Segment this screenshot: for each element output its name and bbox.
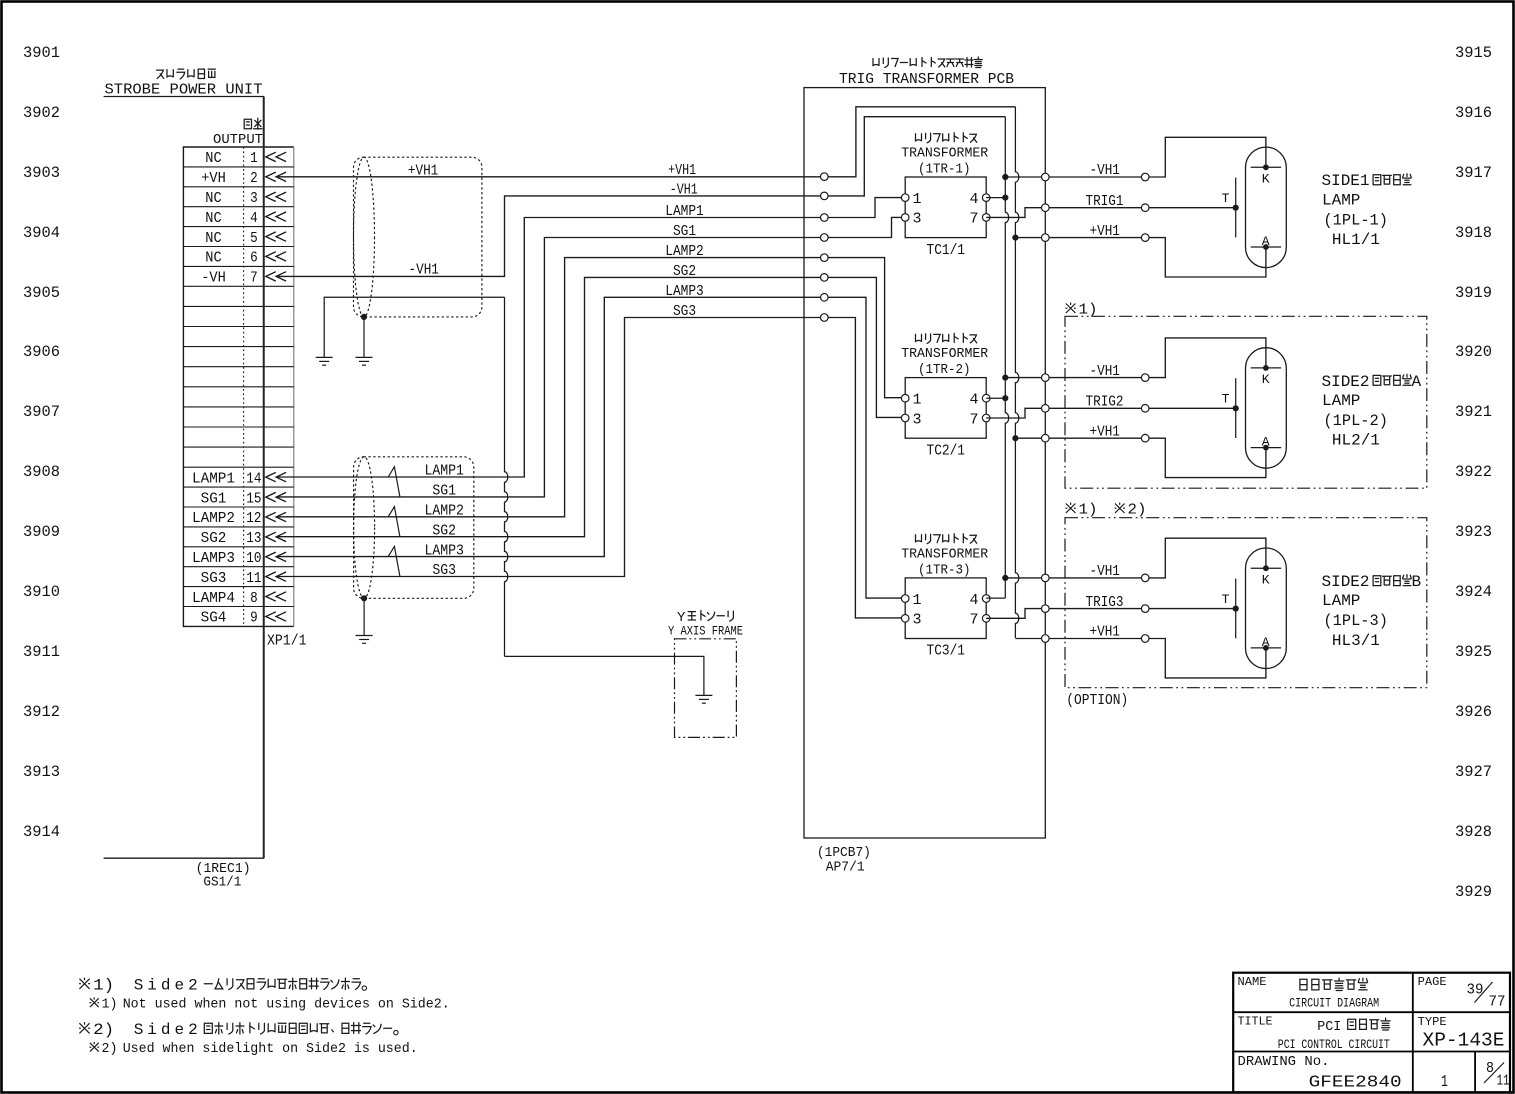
- svg-text:LAMP2: LAMP2: [192, 510, 235, 527]
- svg-text:4: 4: [969, 191, 978, 208]
- svg-text:8: 8: [250, 590, 258, 607]
- svg-text:HL1/1: HL1/1: [1332, 231, 1380, 249]
- XP1/1 pin 5 NC: [205, 230, 286, 247]
- svg-text:3919: 3919: [1455, 284, 1492, 302]
- XP1/1 pin 8 LAMP4: [192, 590, 286, 607]
- svg-text:SG3: SG3: [201, 570, 227, 587]
- node +VH1 PCB output pin (lamp 1): [1042, 234, 1050, 242]
- wire LAMP3 (XP1/1 to TC primary): [278, 297, 906, 598]
- svg-text:3909: 3909: [23, 523, 60, 541]
- svg-text:LAMP: LAMP: [1322, 392, 1360, 410]
- svg-text:TITLE: TITLE: [1238, 1015, 1273, 1029]
- lamp HL1/1 trigger electrode T: [1222, 178, 1239, 238]
- XP1/1 pin 14 LAMP1: [192, 470, 286, 487]
- XP1/1 pin 7 -VH: [201, 270, 286, 287]
- XP1/1 pin 9 SG4: [201, 610, 287, 627]
- transformer TC2/1 (1TR-2): [901, 333, 990, 459]
- ground (chassis, left): [316, 356, 333, 358]
- XP1/1 pin 6 NC: [205, 250, 286, 267]
- svg-text:+VH1: +VH1: [1090, 423, 1120, 440]
- svg-text:1: 1: [1441, 1073, 1448, 1092]
- node -VH1 PCB entry pin: [821, 192, 829, 200]
- svg-text:3: 3: [913, 411, 922, 428]
- svg-text:11: 11: [246, 570, 261, 587]
- svg-text:3928: 3928: [1455, 823, 1492, 841]
- node -VH1 PCB output pin (lamp 1): [1042, 173, 1050, 181]
- svg-text:T: T: [1222, 191, 1230, 206]
- lamp HL1/1 (1PL-1) discharge tube: [1246, 147, 1287, 268]
- lamp HL2/1 trigger electrode T: [1222, 378, 1239, 438]
- svg-text:-VH1: -VH1: [1090, 363, 1120, 380]
- svg-text:3923: 3923: [1455, 523, 1492, 541]
- svg-text:3907: 3907: [23, 403, 60, 421]
- svg-text:K: K: [1262, 372, 1270, 387]
- svg-text:K: K: [1262, 171, 1270, 186]
- node +VH1 PCB entry pin: [821, 173, 829, 181]
- ground (Y axis frame): [695, 694, 712, 696]
- wire +VH1 bus (vertical, feeds all lamp anode lines): [1015, 107, 1018, 638]
- svg-text:2: 2: [188, 1021, 198, 1039]
- wire -VH1 (XP1/1 pin7 to PCB, routed over TC1): [278, 117, 1006, 277]
- svg-text:1: 1: [913, 592, 922, 609]
- svg-text:S: S: [134, 1021, 144, 1039]
- strobe power unit GS1/1 (1REC1) outline and title: [104, 69, 264, 890]
- svg-text:CIRCUIT DIAGRAM: CIRCUIT DIAGRAM: [1289, 996, 1379, 1011]
- svg-text:TYPE: TYPE: [1418, 1015, 1447, 1029]
- junction -VH1 bus / lamp 2 cathode line: [1002, 375, 1008, 381]
- wire SG3 (XP1/1 to TC primary): [278, 318, 906, 618]
- cable shield (lamp signal pairs): [354, 457, 474, 599]
- svg-text:3912: 3912: [23, 703, 60, 721]
- svg-text:4: 4: [969, 592, 978, 609]
- XP1/1 pin 15 SG1: [201, 490, 287, 507]
- svg-text:SG3: SG3: [432, 562, 456, 579]
- svg-text:+VH1: +VH1: [1090, 624, 1120, 641]
- svg-text:A: A: [1262, 435, 1270, 450]
- svg-text:3911: 3911: [23, 643, 60, 661]
- svg-text:SIDE2: SIDE2: [1322, 373, 1370, 391]
- node SG1 PCB entry pin: [821, 234, 829, 242]
- svg-text:9: 9: [250, 610, 258, 627]
- svg-text:(1PL-2): (1PL-2): [1323, 412, 1388, 430]
- svg-text:e: e: [175, 1021, 185, 1039]
- node LAMP2 PCB entry pin: [821, 254, 829, 262]
- svg-text:SG1: SG1: [673, 223, 696, 240]
- label lamp 2 designation: [1322, 373, 1422, 450]
- node +VH1 PCB output pin (lamp 3): [1042, 635, 1050, 643]
- XP1/1 pin 11 SG3: [201, 570, 287, 587]
- svg-text:2): 2): [93, 1021, 114, 1039]
- svg-text:3914: 3914: [23, 823, 60, 841]
- node TRIG3 lamp connector: [1141, 605, 1149, 613]
- svg-text:TRANSFORMER: TRANSFORMER: [901, 145, 989, 161]
- svg-text:3918: 3918: [1455, 224, 1492, 242]
- node SG2 PCB entry pin: [821, 274, 829, 282]
- note *1 (English): [89, 996, 449, 1012]
- node LAMP3 PCB entry pin: [821, 294, 829, 302]
- svg-text:2): 2): [1128, 501, 1147, 518]
- svg-text:T: T: [1222, 592, 1230, 607]
- svg-text:SIDE2: SIDE2: [1322, 573, 1370, 591]
- svg-text:NC: NC: [205, 190, 221, 207]
- svg-text:-VH: -VH: [201, 270, 226, 287]
- svg-text:TRIG1: TRIG1: [1086, 193, 1124, 210]
- svg-text:3913: 3913: [23, 763, 60, 781]
- svg-text:1: 1: [913, 191, 922, 208]
- node TRIG3 PCB output pin: [1042, 605, 1050, 613]
- svg-text:XP1/1: XP1/1: [267, 633, 307, 650]
- XP1/1 pin 3 NC: [205, 190, 286, 207]
- svg-text:LAMP2: LAMP2: [424, 503, 464, 520]
- svg-text:-VH1: -VH1: [1090, 162, 1120, 179]
- lamp HL3/1 (1PL-3) discharge tube: [1246, 548, 1287, 669]
- svg-text:7: 7: [969, 612, 978, 629]
- svg-text:LAMP: LAMP: [1322, 592, 1360, 610]
- transformer TC1/1 (1TR-1): [901, 133, 990, 259]
- junction -VH1 bus / lamp 1 cathode line: [1002, 174, 1008, 180]
- svg-text:4: 4: [250, 210, 258, 227]
- svg-text:7: 7: [250, 270, 258, 287]
- XP1/1 pin 10 LAMP3: [192, 550, 286, 567]
- wire +VH1 to lamp HL2 anode: [1015, 438, 1266, 477]
- svg-text:LAMP3: LAMP3: [424, 542, 464, 559]
- wire ground bus (chassis grounds to Y axis frame): [505, 297, 508, 656]
- note *1 (Japanese): [79, 976, 367, 994]
- svg-text:3927: 3927: [1455, 763, 1492, 781]
- svg-text:Not used when not using device: Not used when not using devices on Side2…: [123, 996, 450, 1012]
- svg-text:7: 7: [969, 411, 978, 428]
- svg-text:-VH1: -VH1: [409, 262, 439, 279]
- svg-text:OUTPUT: OUTPUT: [213, 132, 263, 148]
- svg-text:NAME: NAME: [1238, 975, 1267, 989]
- svg-text:A: A: [1412, 373, 1422, 391]
- svg-text:3915: 3915: [1455, 44, 1492, 62]
- svg-text:6: 6: [250, 250, 258, 267]
- trig transformer PCB AP7/1 (1PCB7) outline: [804, 57, 1045, 876]
- svg-text:3925: 3925: [1455, 643, 1492, 661]
- node TRIG1 PCB output pin: [1042, 204, 1050, 212]
- XP1/1 pin 13 SG2: [201, 530, 287, 547]
- svg-text:K: K: [1262, 572, 1270, 587]
- svg-text:3926: 3926: [1455, 703, 1492, 721]
- svg-text:TC2/1: TC2/1: [927, 442, 966, 459]
- svg-text:LAMP1: LAMP1: [665, 203, 704, 220]
- wire TC1/1 pin4 to -VH1 bus: [986, 197, 1005, 199]
- svg-text:SG3: SG3: [673, 303, 696, 320]
- svg-text:14: 14: [246, 470, 261, 487]
- svg-text:LAMP3: LAMP3: [665, 283, 704, 300]
- svg-text:A: A: [1262, 635, 1270, 650]
- svg-text:(1PL-3): (1PL-3): [1323, 612, 1388, 630]
- svg-text:LAMP4: LAMP4: [192, 590, 235, 607]
- svg-text:11: 11: [1497, 1073, 1510, 1090]
- svg-text:(1TR-3): (1TR-3): [918, 562, 971, 578]
- wire -VH1 bus (vertical, feeds all lamp cathode lines): [1005, 117, 1008, 598]
- svg-text:1: 1: [250, 150, 258, 167]
- twisted pair symbol (pair 2): [388, 507, 400, 537]
- svg-text:HL2/1: HL2/1: [1332, 432, 1380, 450]
- svg-text:LAMP2: LAMP2: [665, 243, 704, 260]
- svg-text:3905: 3905: [23, 284, 60, 302]
- wire TRIG3 (TC3 secondary to lamp trigger): [986, 609, 1235, 619]
- svg-text:T: T: [1222, 392, 1230, 407]
- wire -VH1 to lamp HL1 cathode: [1005, 137, 1266, 177]
- svg-text:LAMP: LAMP: [1322, 191, 1360, 209]
- svg-text:Used when sidelight on Side2 i: Used when sidelight on Side2 is used.: [123, 1041, 418, 1057]
- node TRIG2 PCB output pin: [1042, 405, 1050, 413]
- wire TC2/1 pin4 to -VH1 bus: [986, 397, 1005, 399]
- node +VH1 lamp connector (lamp 2): [1141, 434, 1149, 442]
- node +VH1 lamp connector (lamp 3): [1141, 635, 1149, 643]
- svg-text:3903: 3903: [23, 164, 60, 182]
- svg-text:3: 3: [913, 211, 922, 228]
- ground (shield 1 drain): [356, 314, 373, 365]
- svg-text:TRANSFORMER: TRANSFORMER: [901, 346, 989, 362]
- svg-text:NC: NC: [205, 250, 221, 267]
- connector XP1/1 boundary line (strobe unit edge through table): [263, 97, 265, 859]
- XP1/1 pin 2 +VH: [201, 170, 286, 187]
- node +VH1 PCB output pin (lamp 2): [1042, 434, 1050, 442]
- label lamp 1 designation: [1322, 172, 1412, 249]
- cable shield (power pair +VH/-VH): [354, 157, 482, 317]
- svg-text:LAMP1: LAMP1: [424, 463, 464, 480]
- svg-text:SG1: SG1: [201, 490, 227, 507]
- svg-text:+VH1: +VH1: [668, 162, 696, 179]
- svg-text:1): 1): [93, 976, 114, 994]
- wire -VH1 to lamp HL2 cathode: [1005, 338, 1266, 378]
- wire ground bus horizontal segments: [324, 297, 704, 695]
- note *2 (English): [89, 1041, 417, 1057]
- svg-text:e: e: [175, 976, 185, 994]
- svg-text:3901: 3901: [23, 44, 60, 62]
- svg-text:PCI CONTROL CIRCUIT: PCI CONTROL CIRCUIT: [1278, 1037, 1390, 1052]
- node -VH1 PCB output pin (lamp 3): [1042, 574, 1050, 582]
- svg-text:7: 7: [969, 211, 978, 228]
- svg-text:(OPTION): (OPTION): [1066, 692, 1128, 709]
- junction +VH1 bus / lamp 2 anode line: [1012, 435, 1018, 441]
- wire TRIG2 (TC2 secondary to lamp trigger): [986, 408, 1235, 418]
- svg-text:1: 1: [913, 392, 922, 409]
- note *2 (Japanese): [79, 1021, 398, 1039]
- svg-text:SG2: SG2: [201, 530, 227, 547]
- svg-text:SG4: SG4: [201, 610, 227, 627]
- node -VH1 lamp connector (lamp 2): [1141, 374, 1149, 382]
- label lamp 3 designation: [1322, 573, 1422, 650]
- svg-text:TRIG3: TRIG3: [1086, 594, 1124, 611]
- wire +VH1 to lamp HL3 anode: [1015, 639, 1266, 678]
- transformer TC3/1 (1TR-3): [901, 534, 990, 660]
- svg-text:Y AXIS FRAME: Y AXIS FRAME: [668, 624, 743, 639]
- svg-text:3929: 3929: [1455, 883, 1492, 901]
- svg-text:3902: 3902: [23, 104, 60, 122]
- svg-text:TRIG2: TRIG2: [1086, 394, 1124, 411]
- svg-text:PAGE: PAGE: [1418, 975, 1447, 989]
- wire +VH1 (XP1/1 pin2 to PCB, routed over TC1): [278, 107, 1016, 177]
- svg-text:d: d: [161, 976, 171, 994]
- svg-text:TC1/1: TC1/1: [927, 242, 966, 259]
- svg-text:NC: NC: [205, 150, 221, 167]
- svg-text:1): 1): [102, 996, 118, 1012]
- svg-text:4: 4: [969, 392, 978, 409]
- wire -VH1 bus to TC3 pin4: [986, 597, 1005, 599]
- svg-text:(1TR-2): (1TR-2): [918, 362, 971, 378]
- svg-text:3: 3: [913, 612, 922, 629]
- svg-text:i: i: [147, 1021, 157, 1039]
- svg-text:77: 77: [1489, 994, 1506, 1011]
- svg-text:+VH1: +VH1: [408, 162, 438, 179]
- svg-text:S: S: [134, 976, 144, 994]
- wire -VH1 to lamp HL3 cathode: [1005, 538, 1266, 578]
- option region box *1 (lamp 2, used only with Side2 devices): [1065, 301, 1427, 488]
- svg-text:3: 3: [250, 190, 258, 207]
- svg-text:NC: NC: [205, 210, 221, 227]
- svg-text:i: i: [147, 976, 157, 994]
- svg-text:3904: 3904: [23, 224, 60, 242]
- svg-text:3917: 3917: [1455, 164, 1492, 182]
- svg-text:-VH1: -VH1: [670, 182, 698, 199]
- svg-text:GFEE2840: GFEE2840: [1309, 1074, 1402, 1093]
- svg-text:PCI: PCI: [1317, 1019, 1341, 1035]
- svg-text:TRIG TRANSFORMER PCB: TRIG TRANSFORMER PCB: [839, 71, 1014, 88]
- svg-text:13: 13: [246, 530, 261, 547]
- svg-text:+VH: +VH: [201, 170, 226, 187]
- svg-text:2: 2: [250, 170, 258, 187]
- svg-text:SG2: SG2: [673, 263, 696, 280]
- ground (shield 2 drain): [356, 595, 373, 643]
- svg-text:SG2: SG2: [432, 522, 456, 539]
- node SG3 PCB entry pin: [821, 314, 829, 322]
- option region box *1 *2 (lamp 3, sidelight option): [1065, 501, 1427, 708]
- node TRIG1 lamp connector: [1141, 204, 1149, 212]
- wire LAMP1 (XP1/1 to TC primary): [278, 198, 906, 477]
- svg-text:LAMP1: LAMP1: [192, 470, 235, 487]
- junction TC1/1 pin4 / -VH1 bus: [1002, 195, 1008, 201]
- svg-text:3908: 3908: [23, 463, 60, 481]
- svg-text:+VH1: +VH1: [1090, 223, 1120, 240]
- XP1/1 pin 12 LAMP2: [192, 510, 286, 527]
- XP1/1 pin 1 NC: [205, 150, 286, 167]
- node -VH1 PCB output pin (lamp 2): [1042, 374, 1050, 382]
- wire TRIG1 (TC1 secondary to lamp trigger): [986, 208, 1235, 218]
- svg-text:12: 12: [246, 510, 261, 527]
- svg-text:(1TR-1): (1TR-1): [918, 161, 971, 177]
- label OUTPUT (terminal block): [213, 118, 263, 148]
- svg-text:1): 1): [1079, 501, 1098, 518]
- svg-text:2): 2): [102, 1041, 118, 1057]
- node TRIG2 lamp connector: [1141, 405, 1149, 413]
- twisted pair symbol (pair 1): [388, 467, 400, 497]
- svg-text:TC3/1: TC3/1: [927, 643, 966, 660]
- svg-text:DRAWING No.: DRAWING No.: [1238, 1054, 1330, 1070]
- wire LAMP2 (XP1/1 to TC primary): [278, 258, 906, 517]
- svg-text:2: 2: [188, 976, 198, 994]
- svg-text:5: 5: [250, 230, 258, 247]
- svg-text:3920: 3920: [1455, 343, 1492, 361]
- svg-text:B: B: [1412, 573, 1422, 591]
- Y axis frame (chassis) box: [668, 610, 743, 737]
- svg-text:3924: 3924: [1455, 583, 1492, 601]
- node -VH1 lamp connector (lamp 1): [1141, 173, 1149, 181]
- svg-text:15: 15: [246, 490, 261, 507]
- title block: [1233, 973, 1510, 1093]
- node -VH1 lamp connector (lamp 3): [1141, 574, 1149, 582]
- twisted pair symbol (pair 3): [388, 546, 400, 576]
- svg-text:HL3/1: HL3/1: [1332, 632, 1380, 650]
- svg-text:3921: 3921: [1455, 403, 1492, 421]
- node LAMP1 PCB entry pin: [821, 214, 829, 222]
- lamp HL2/1 (1PL-2) discharge tube: [1246, 348, 1287, 469]
- svg-text:A: A: [1262, 234, 1270, 249]
- svg-text:XP-143E: XP-143E: [1423, 1030, 1505, 1052]
- svg-text:NC: NC: [205, 230, 221, 247]
- XP1/1 pin 4 NC: [205, 210, 286, 227]
- svg-text:AP7/1: AP7/1: [826, 860, 865, 876]
- svg-text:SG1: SG1: [432, 483, 456, 500]
- svg-text:3916: 3916: [1455, 104, 1492, 122]
- svg-text:3922: 3922: [1455, 463, 1492, 481]
- wire +VH1 to lamp HL1 anode: [1015, 238, 1266, 277]
- svg-text:SIDE1: SIDE1: [1322, 172, 1370, 190]
- junction +VH1 bus / lamp 1 anode line: [1012, 235, 1018, 241]
- svg-text:(1PL-1): (1PL-1): [1323, 211, 1388, 229]
- junction -VH1 bus / lamp 3 cathode line: [1002, 575, 1008, 581]
- wire SG2 (XP1/1 to TC primary): [278, 277, 906, 536]
- svg-text:GS1/1: GS1/1: [203, 874, 241, 890]
- connector XP1/1 terminal table frame: [183, 147, 293, 626]
- svg-text:10: 10: [246, 550, 261, 567]
- svg-text:-VH1: -VH1: [1090, 563, 1120, 580]
- svg-text:3906: 3906: [23, 343, 60, 361]
- wire SG1 (XP1/1 to TC primary): [278, 217, 906, 497]
- junction TC2/1 pin4 / -VH1 bus: [1002, 395, 1008, 401]
- node +VH1 lamp connector (lamp 1): [1141, 234, 1149, 242]
- svg-text:d: d: [161, 1021, 171, 1039]
- svg-text:3910: 3910: [23, 583, 60, 601]
- svg-text:LAMP3: LAMP3: [192, 550, 235, 567]
- svg-text:TRANSFORMER: TRANSFORMER: [901, 546, 989, 562]
- lamp HL3/1 trigger electrode T: [1222, 579, 1239, 639]
